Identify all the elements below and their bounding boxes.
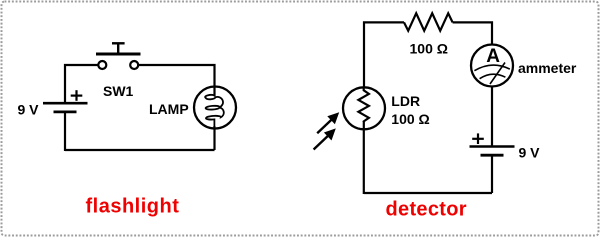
needle [490,63,505,85]
wire into lamp top [213,86,215,96]
svg-text:9 V: 9 V [519,145,541,161]
label detector [386,199,467,221]
wire: battery negative down to bottom rail [64,112,66,151]
label 100 Ω (resistor) [410,40,448,56]
wire out of lamp bottom [213,126,215,129]
lamp (bulb) [194,86,236,129]
svg-text:100 Ω: 100 Ω [391,111,429,127]
meter scale lower arc [480,74,506,79]
label 100 Ω (LDR) [391,111,429,127]
positive plate (long) [470,145,515,148]
svg-text:ammeter: ammeter [518,60,577,76]
battery B1 9V [43,90,88,112]
switch SW1 [96,43,141,69]
wire: ammeter to battery positive [491,86,493,147]
svg-text:A: A [486,46,500,67]
internal zigzag [358,88,369,123]
negative plate (short) [54,111,77,114]
svg-text:LDR: LDR [391,93,420,109]
label LDR [391,93,420,109]
positive plate (long) [43,102,88,105]
terminal circle left [98,61,106,69]
svg-text:detector: detector [386,199,467,221]
wire: bottom rail (right circuit) [364,192,492,194]
wire: switch to lamp top [138,65,214,87]
pushbutton bar [96,53,141,56]
lamp circle [194,87,236,129]
light arrow 2 (lower) [314,128,336,149]
LDR (photoresistor) [343,87,385,129]
battery B2 9V [470,133,515,155]
svg-text:9 V: 9 V [18,102,40,118]
plus sign [71,94,83,96]
light arrow 1 (upper) [317,112,339,133]
meter scale upper arc [474,65,509,71]
label 9 V (left battery) [18,102,40,118]
wire: bottom rail up to LDR bottom [363,121,365,194]
wire: bottom rail [65,149,215,151]
filament coil [205,92,224,129]
label LAMP [149,101,189,117]
svg-text:SW1: SW1 [103,83,134,99]
resistor 100 ohm (zigzag) [404,13,453,30]
actuator stem [117,44,119,55]
label ammeter [518,60,577,76]
label flashlight [86,196,180,218]
svg-text:flashlight: flashlight [86,196,180,218]
plus sign [472,138,484,140]
svg-text:LAMP: LAMP [149,101,189,117]
ammeter U1 [471,45,513,87]
wire: LDR top to resistor [364,22,404,87]
wire: battery positive up to switch level [65,65,99,103]
wire: battery negative to bottom rail [491,155,493,193]
wire: resistor to ammeter [453,22,492,45]
terminal circle right [130,61,138,69]
label SW1 [103,83,134,99]
svg-text:100 Ω: 100 Ω [410,40,448,56]
wire: lamp bottom to bottom rail [213,128,215,150]
label 9 V (right battery) [519,145,541,161]
actuator cap [112,42,125,44]
negative plate (short) [481,154,504,157]
